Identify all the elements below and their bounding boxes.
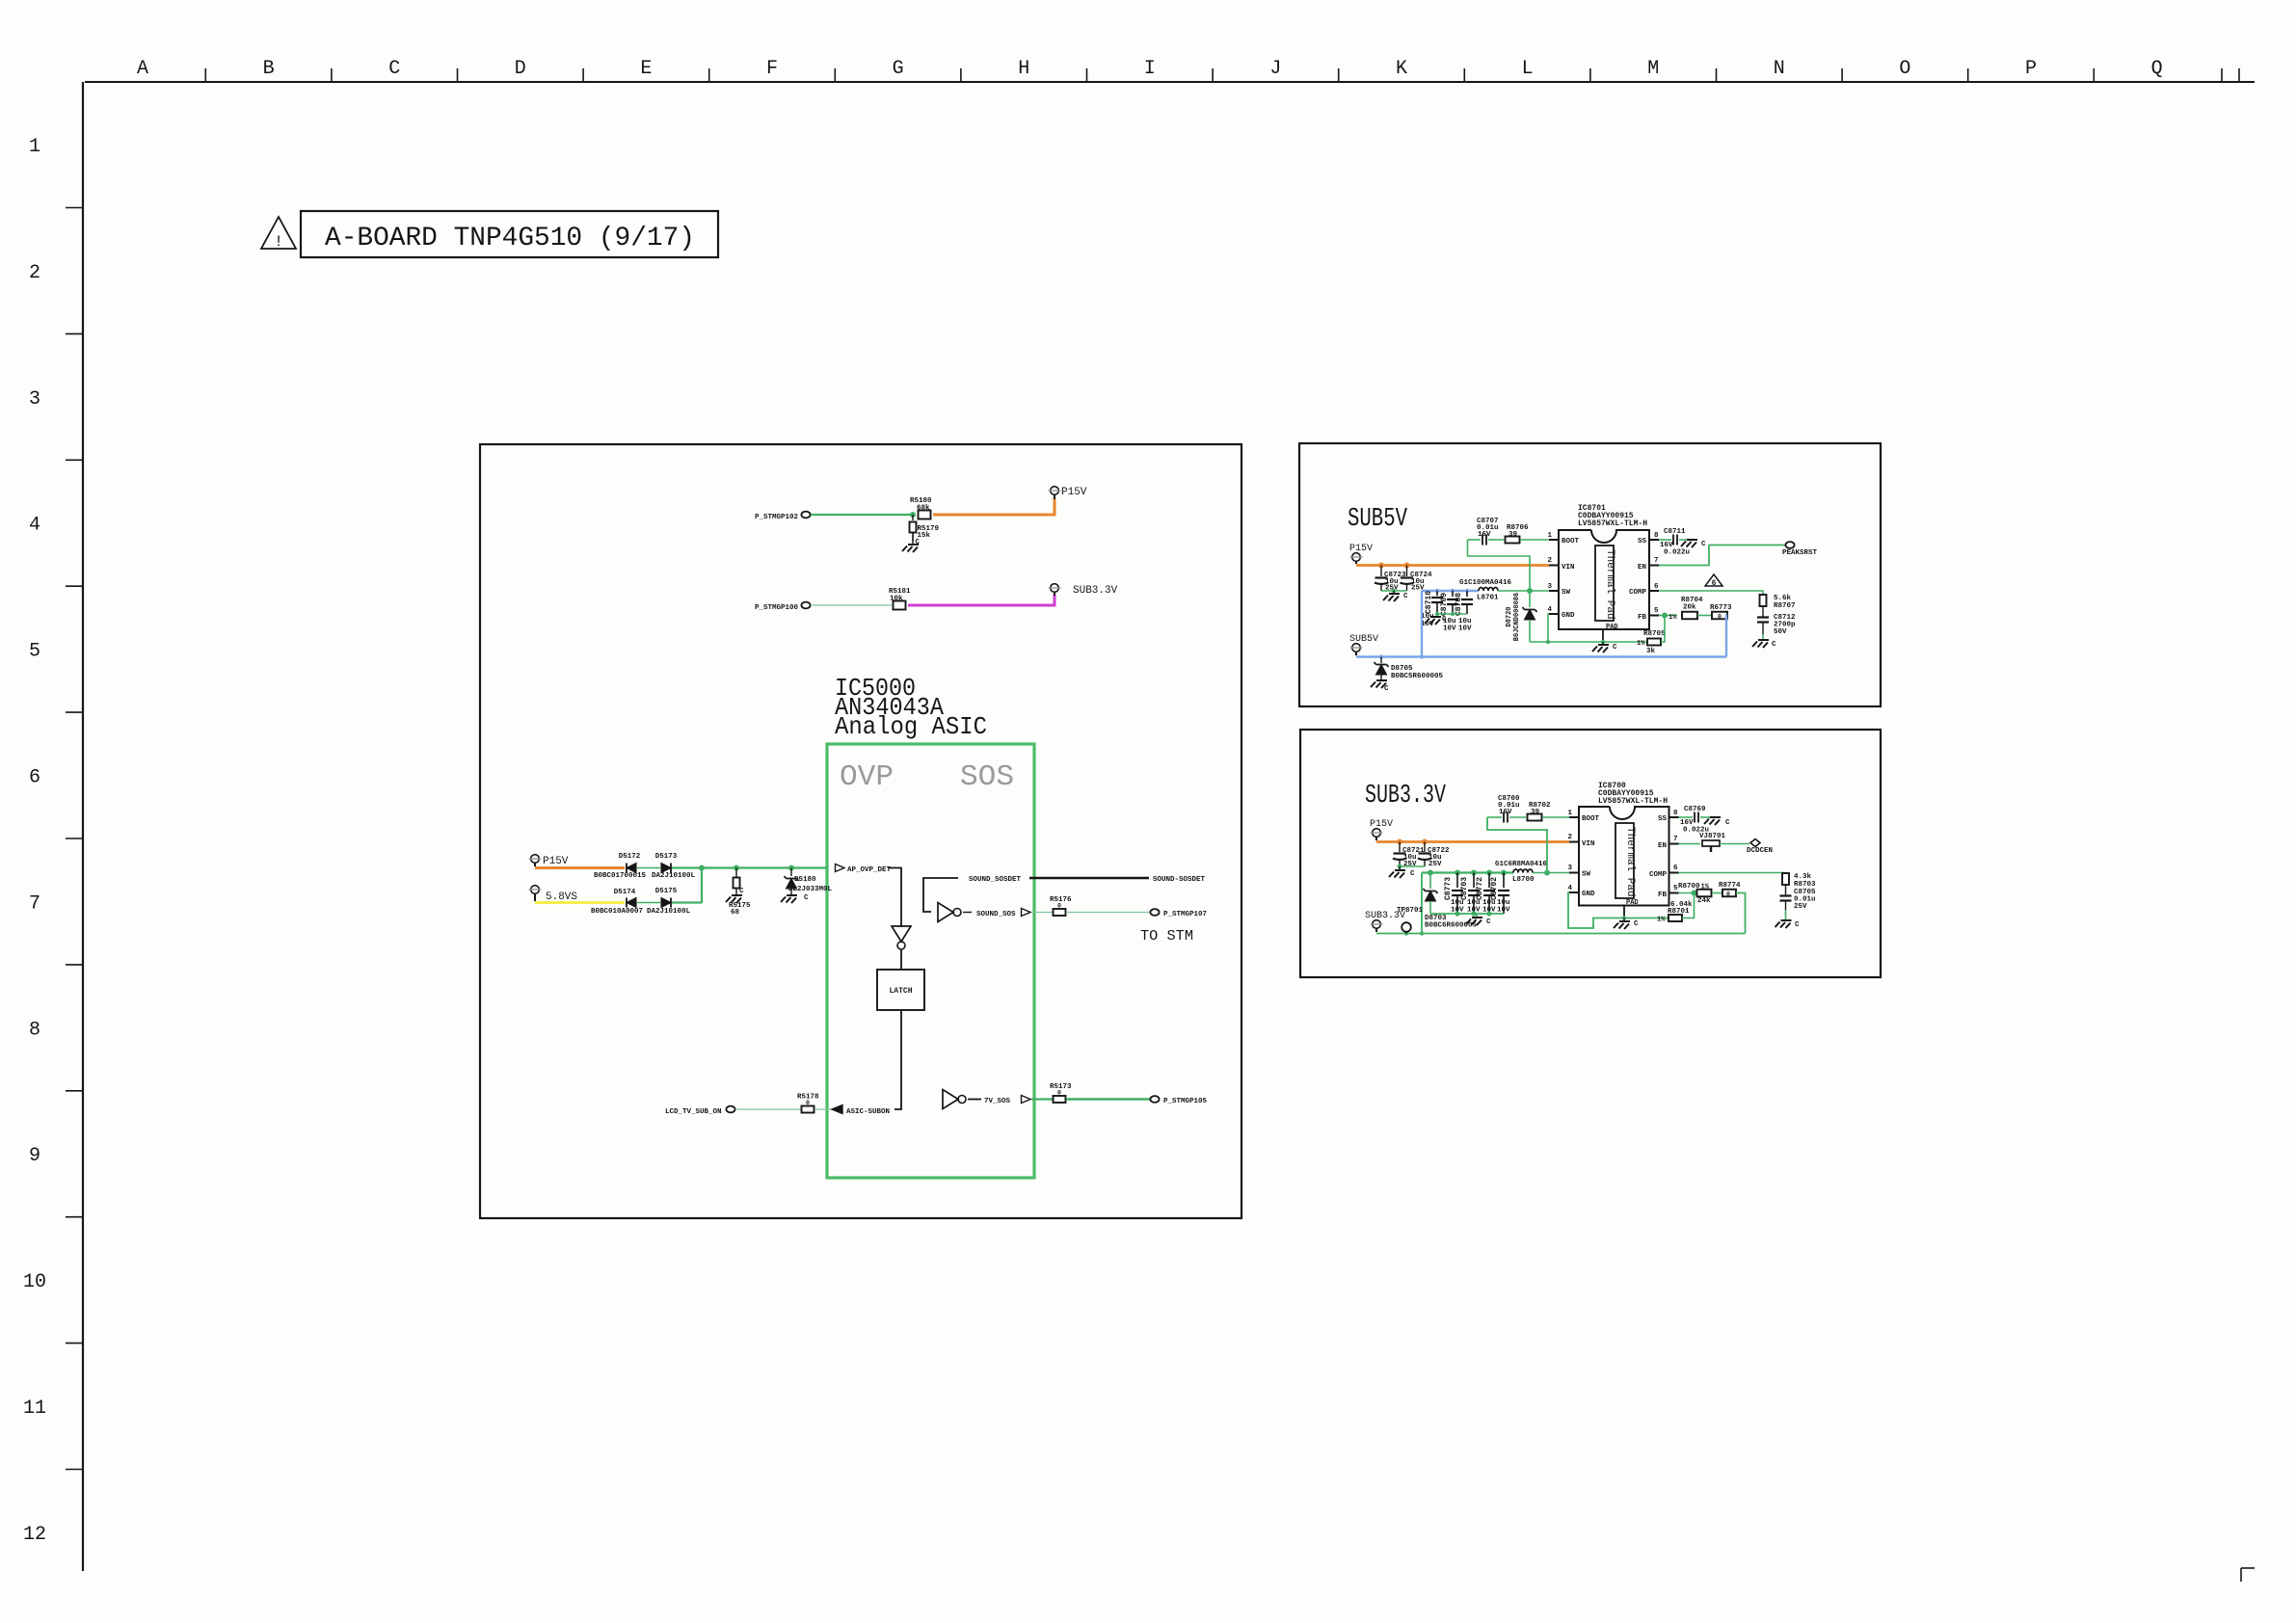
- terminal 5.8VS: [529, 886, 578, 903]
- svg-text:25V: 25V: [1428, 861, 1442, 868]
- terminal SUB3.3V top: [1049, 584, 1118, 597]
- resistor R8701: [1657, 901, 1693, 924]
- ground C8721 C8722: [1389, 866, 1415, 878]
- svg-text:6.04k: 6.04k: [1670, 901, 1693, 909]
- resistor R8705: [1637, 630, 1666, 655]
- node C8721 tap: [1397, 839, 1402, 845]
- wire SUB3.3V rail: [1376, 933, 1746, 935]
- svg-text:1%: 1%: [1701, 884, 1710, 891]
- svg-text:3k: 3k: [1646, 648, 1656, 655]
- ground D8705: [1371, 680, 1389, 693]
- warning triangle 6: [1705, 574, 1722, 588]
- pin 1 BOOT: [1547, 532, 1579, 545]
- svg-text:C8773: C8773: [1444, 877, 1453, 900]
- wire R5178 to block: [814, 1108, 831, 1110]
- capacitor C8723: [1375, 566, 1406, 593]
- wire R5173 to P_STMGP105: [1066, 1098, 1150, 1101]
- pin arrow AP_OVP_DET: [836, 865, 892, 875]
- svg-text:B0BC010A0007: B0BC010A0007: [591, 908, 643, 916]
- svg-text:D5174: D5174: [614, 889, 636, 896]
- svg-text:Analog ASIC: Analog ASIC: [835, 712, 987, 741]
- wire 5.8VS branch vertical: [701, 868, 703, 904]
- wire SOUND_SOSDET left segment: [923, 878, 958, 912]
- ground R5175: [726, 888, 744, 903]
- wire caps bottom rail sub33: [1430, 913, 1504, 915]
- svg-text:C: C: [804, 894, 809, 902]
- wire D5172 to D5173: [637, 867, 660, 869]
- wire COMP out sub33: [1679, 873, 1786, 875]
- wire SOUND_SOS to R5176: [1031, 912, 1053, 914]
- svg-text:P_STMGP105: P_STMGP105: [1163, 1098, 1208, 1105]
- inverter U sound_sos: [938, 903, 953, 922]
- svg-text:SUB5V: SUB5V: [1349, 634, 1378, 645]
- svg-text:24k: 24k: [1697, 897, 1711, 905]
- wire COMP out: [1659, 591, 1763, 595]
- svg-text:B0BC5R600005: B0BC5R600005: [1391, 673, 1444, 680]
- svg-text:20k: 20k: [1683, 604, 1696, 612]
- node C8773 tap: [1455, 870, 1460, 876]
- node PAD gnd sub33: [1622, 916, 1626, 919]
- pin 3 SW sub33: [1567, 865, 1590, 879]
- wire orange R5180 to P15V: [933, 498, 1055, 515]
- svg-text:3: 3: [29, 388, 40, 411]
- svg-text:R8701: R8701: [1668, 908, 1690, 916]
- svg-text:VIN: VIN: [1582, 840, 1595, 848]
- ground C8712: [1752, 634, 1776, 649]
- wire BOOT feed sub33: [1487, 817, 1547, 873]
- node C8708 tap: [1465, 589, 1469, 593]
- svg-text:C: C: [1384, 685, 1389, 693]
- svg-text:5: 5: [1654, 607, 1659, 615]
- terminal SUB5V: [1349, 634, 1378, 655]
- svg-text:D5172: D5172: [619, 853, 641, 861]
- svg-text:Thermal Pad: Thermal Pad: [1624, 827, 1636, 897]
- SUB5V block box: [1299, 443, 1881, 706]
- wire magenta R5181 to SUB3.3V: [908, 595, 1055, 605]
- resistor R5179: [910, 515, 940, 542]
- svg-text:7: 7: [1673, 836, 1678, 843]
- svg-text:OVP: OVP: [840, 760, 894, 794]
- svg-text:8: 8: [29, 1019, 40, 1041]
- svg-text:C8710: C8710: [1425, 591, 1433, 614]
- node C8722 tap: [1422, 839, 1428, 845]
- svg-text:9: 9: [29, 1145, 40, 1167]
- svg-text:C: C: [1442, 616, 1447, 624]
- svg-text:SOUND-SOSDET: SOUND-SOSDET: [1153, 876, 1206, 884]
- node diode join: [699, 865, 705, 871]
- svg-text:68: 68: [731, 909, 740, 917]
- resistor R8707: [1760, 595, 1796, 610]
- svg-text:R8703: R8703: [1794, 881, 1816, 889]
- svg-text:L: L: [1522, 58, 1534, 80]
- svg-text:39: 39: [1531, 809, 1540, 816]
- svg-text:C8711: C8711: [1664, 528, 1686, 536]
- svg-text:SW: SW: [1562, 589, 1571, 597]
- row numbers 1-12: [23, 136, 46, 1546]
- svg-text:D: D: [515, 58, 526, 80]
- svg-text:P15V: P15V: [543, 856, 569, 867]
- svg-text:GND: GND: [1582, 891, 1595, 898]
- IC8701 part labels: [1578, 504, 1647, 528]
- node riser tap sub33: [1420, 931, 1424, 935]
- terminal P_STMGP102: [755, 512, 811, 521]
- svg-text:P_STMGP102: P_STMGP102: [755, 514, 799, 521]
- svg-text:B0JCND000086: B0JCND000086: [1513, 593, 1521, 641]
- zener D5180: [785, 868, 833, 896]
- IC5000 label: [835, 674, 987, 741]
- svg-text:H: H: [1018, 58, 1029, 80]
- svg-text:O: O: [1899, 58, 1910, 80]
- svg-text:C: C: [1795, 921, 1800, 929]
- wire L8701 to SW pin: [1498, 590, 1549, 592]
- svg-text:5.6k: 5.6k: [1774, 595, 1792, 602]
- capacitor C8708: [1455, 591, 1473, 616]
- node C8724 tap: [1404, 563, 1410, 569]
- svg-text:10k: 10k: [890, 596, 903, 603]
- svg-text:Q: Q: [2151, 58, 2163, 80]
- svg-text:J: J: [1269, 58, 1281, 80]
- svg-text:L8700: L8700: [1512, 876, 1535, 884]
- resistor R8704: [1681, 597, 1703, 619]
- terminal P_STMGP107: [1150, 909, 1207, 918]
- svg-text:COMP: COMP: [1629, 589, 1647, 597]
- svg-text:GND: GND: [1562, 612, 1575, 620]
- node TP8701 tap: [1404, 931, 1408, 935]
- svg-text:SOUND_SOS: SOUND_SOS: [976, 911, 1016, 918]
- wire riser sub33: [1421, 873, 1423, 934]
- wire R8701 to FB junction: [1682, 893, 1695, 918]
- wire 7V_SOS to R5173: [1031, 1098, 1053, 1100]
- resistor R5180: [910, 497, 932, 519]
- svg-text:C: C: [1725, 819, 1730, 827]
- diode D5174: [591, 889, 643, 916]
- svg-text:1%: 1%: [1657, 917, 1666, 924]
- wire L8700 to SW sub33: [1533, 872, 1569, 874]
- resistor R8700: [1678, 883, 1712, 905]
- svg-text:7: 7: [1654, 557, 1659, 565]
- svg-text:11: 11: [23, 1397, 46, 1420]
- capacitor C8712: [1757, 606, 1796, 636]
- inverter U 7v_sos: [943, 1090, 958, 1109]
- svg-text:P: P: [2025, 58, 2037, 80]
- svg-text:2: 2: [29, 262, 40, 284]
- terminal SUB3.3V: [1365, 911, 1405, 932]
- pin PAD sub33: [1624, 899, 1639, 918]
- wire orange VIN rail: [1356, 564, 1549, 567]
- svg-text:LV5857WXL-TLM-H: LV5857WXL-TLM-H: [1578, 519, 1647, 528]
- thermal pad U8700: [1615, 823, 1636, 898]
- svg-text:VJ8701: VJ8701: [1699, 833, 1726, 840]
- svg-text:3: 3: [1547, 583, 1552, 591]
- svg-text:G: G: [893, 58, 904, 80]
- wire thin green P_STMGP100 to R5181: [811, 604, 892, 606]
- capacitor C8705: [1780, 885, 1817, 911]
- svg-text:1: 1: [29, 136, 40, 158]
- svg-text:R6773: R6773: [1710, 604, 1732, 612]
- wire BOOT feed: [1468, 540, 1531, 591]
- capacitor C8769: [1679, 806, 1713, 835]
- IC U8700 body: [1579, 807, 1669, 906]
- svg-text:12: 12: [23, 1524, 46, 1546]
- svg-text:SUB3.3V: SUB3.3V: [1365, 782, 1447, 811]
- svg-text:25V: 25V: [1794, 903, 1807, 911]
- bottom right corner mark: [2241, 1568, 2255, 1582]
- capacitor C8724: [1401, 566, 1433, 593]
- svg-text:4: 4: [1567, 885, 1572, 892]
- svg-text:ASIC-SUBON: ASIC-SUBON: [846, 1108, 890, 1116]
- pin 5 FB: [1638, 607, 1659, 622]
- node C8723 tap: [1378, 563, 1384, 569]
- svg-text:0: 0: [806, 1100, 810, 1106]
- capacitor C8709: [1440, 591, 1458, 616]
- wire caps bottom rail sub5v: [1437, 613, 1467, 615]
- svg-text:DCDCEN: DCDCEN: [1747, 847, 1773, 855]
- svg-text:D5175: D5175: [655, 888, 678, 895]
- ground PAD sub33: [1614, 918, 1639, 930]
- svg-text:C: C: [916, 539, 921, 546]
- pin 4 GND: [1547, 606, 1575, 620]
- svg-text:D8720: D8720: [1506, 606, 1513, 626]
- pin 6 COMP sub33: [1649, 865, 1679, 879]
- ground C8705: [1775, 910, 1801, 929]
- terminal P15V sub5v: [1349, 544, 1373, 564]
- svg-text:DA2J10100L: DA2J10100L: [652, 872, 696, 880]
- svg-text:TP8701: TP8701: [1397, 907, 1424, 915]
- svg-text:G1C100MA0416: G1C100MA0416: [1459, 579, 1512, 587]
- svg-text:P15V: P15V: [1061, 487, 1087, 498]
- node PAD gnd: [1601, 640, 1605, 644]
- diode D5175: [647, 888, 691, 916]
- svg-text:D8705: D8705: [1391, 665, 1413, 673]
- capacitor C8772: [1476, 873, 1495, 915]
- node D5180 tap: [788, 865, 794, 871]
- wire D5175 to branch: [672, 901, 702, 903]
- svg-text:SW: SW: [1582, 871, 1591, 879]
- wire blue 5V cap rail: [1422, 590, 1479, 592]
- svg-text:C8708: C8708: [1455, 593, 1463, 616]
- column letters A-Q: [137, 58, 2163, 80]
- wire yellow 5.8VS to D5174: [535, 901, 625, 904]
- svg-text:1: 1: [1547, 532, 1552, 540]
- svg-text:COMP: COMP: [1649, 871, 1668, 879]
- svg-text:D5173: D5173: [655, 853, 678, 861]
- wire caps join sub33: [1400, 865, 1425, 867]
- svg-text:C8772: C8772: [1476, 877, 1484, 900]
- svg-text:B: B: [263, 58, 275, 80]
- svg-text:EN: EN: [1638, 564, 1646, 572]
- node C8703 tap: [1471, 870, 1477, 876]
- wire FB junction: [1659, 615, 1677, 617]
- terminal LCD_TV_SUB_ON: [665, 1106, 735, 1116]
- svg-text:10: 10: [23, 1271, 46, 1293]
- svg-text:B0BC6R600005: B0BC6R600005: [1425, 922, 1478, 930]
- svg-text:R8774: R8774: [1719, 882, 1741, 890]
- capacitor C8773: [1444, 873, 1463, 915]
- svg-text:L8701: L8701: [1477, 595, 1499, 602]
- diode D5172: [594, 853, 647, 880]
- svg-text:1%: 1%: [1637, 640, 1645, 648]
- svg-text:PEAKSRST: PEAKSRST: [1782, 549, 1818, 557]
- pin 7 EN: [1638, 557, 1659, 572]
- svg-text:6: 6: [1712, 579, 1717, 588]
- terminal P15V top: [1049, 487, 1087, 499]
- cap values sub33: [1451, 899, 1510, 915]
- svg-text:0: 0: [1726, 891, 1730, 898]
- cap values sub5v: [1421, 613, 1472, 633]
- svg-text:0: 0: [1057, 903, 1061, 910]
- svg-text:SUB3.3V: SUB3.3V: [1073, 585, 1118, 597]
- svg-text:C8769: C8769: [1684, 806, 1706, 813]
- wire orange VIN rail sub33: [1376, 840, 1569, 843]
- pin 2 VIN sub33: [1567, 834, 1594, 848]
- svg-text:A-BOARD TNP4G510 (9/17): A-BOARD TNP4G510 (9/17): [325, 224, 695, 253]
- arrow ASIC-SUBON in: [832, 1105, 890, 1117]
- IC U8701 body: [1559, 530, 1649, 629]
- resistor R5175: [729, 868, 751, 918]
- capacitor C8700: [1487, 795, 1526, 823]
- svg-text:0.022u: 0.022u: [1664, 549, 1690, 557]
- wire green P_STMGP102 to R5180: [811, 514, 913, 516]
- wire green 3.3V cap rail: [1422, 871, 1513, 873]
- resistor R5178: [797, 1094, 819, 1113]
- arrow 7V_SOS out: [1022, 1096, 1031, 1104]
- ground D5180: [781, 894, 809, 903]
- testpoint TP8701: [1397, 907, 1424, 934]
- svg-text:6: 6: [1654, 583, 1659, 591]
- terminal P_STMGP105: [1150, 1096, 1207, 1105]
- capacitor C8702: [1490, 873, 1509, 915]
- net label SOUND_SOS: [963, 911, 1016, 918]
- svg-text:FB: FB: [1638, 614, 1647, 622]
- resistor R8774: [1719, 882, 1741, 898]
- svg-text:2: 2: [1567, 834, 1572, 841]
- capacitor C8710: [1425, 591, 1443, 614]
- svg-text:K: K: [1396, 58, 1407, 80]
- warning triangle: [261, 217, 296, 251]
- pin 2 VIN: [1547, 557, 1574, 572]
- wire pin4 GND down: [1548, 614, 1549, 642]
- svg-text:SOUND_SOSDET: SOUND_SOSDET: [969, 876, 1022, 884]
- svg-text:1%: 1%: [1669, 614, 1677, 622]
- svg-text:PAD: PAD: [1606, 624, 1618, 631]
- wire SOUND_SOSDET to right: [1029, 877, 1149, 879]
- svg-text:!: !: [274, 233, 283, 251]
- svg-text:C: C: [388, 58, 400, 80]
- ground C8711: [1681, 540, 1706, 548]
- capacitor C8721: [1393, 842, 1425, 869]
- svg-text:8: 8: [1673, 810, 1678, 817]
- pin 3 SW: [1547, 583, 1570, 597]
- node D8705 tap: [1379, 654, 1383, 658]
- terminal P15V sub33: [1370, 819, 1393, 840]
- ground caps sub33: [1466, 914, 1491, 926]
- svg-text:P15V: P15V: [1370, 819, 1393, 830]
- svg-text:6: 6: [1673, 865, 1678, 872]
- wire blue FB return: [1726, 616, 1727, 657]
- node C8709 tap: [1451, 589, 1455, 593]
- wire EN to PEAKSRST: [1659, 545, 1785, 566]
- svg-text:C: C: [739, 888, 744, 895]
- svg-text:SUB5V: SUB5V: [1348, 505, 1408, 534]
- svg-text:16V: 16V: [1499, 809, 1512, 816]
- node caps riser tap: [1420, 654, 1424, 658]
- diode D5173: [652, 853, 696, 880]
- svg-text:Thermal Pad: Thermal Pad: [1604, 549, 1615, 620]
- capacitor C8722: [1418, 842, 1450, 869]
- svg-text:SOS: SOS: [960, 760, 1014, 794]
- svg-text:BOOT: BOOT: [1562, 538, 1580, 545]
- wire FB return sub33: [1736, 893, 1746, 934]
- SUB3.3V block box: [1300, 730, 1881, 977]
- wire LCD_TV_SUB_ON to R5178: [735, 1108, 801, 1110]
- wire orange P15V to D5172: [535, 866, 625, 869]
- svg-text:7: 7: [29, 892, 40, 915]
- svg-text:3: 3: [1567, 865, 1572, 872]
- pin 6 COMP: [1629, 583, 1659, 597]
- node D8703 tap: [1428, 870, 1433, 876]
- svg-text:10V: 10V: [1458, 625, 1472, 633]
- ground caps sub5v: [1425, 616, 1447, 625]
- svg-text:C: C: [1772, 641, 1776, 649]
- svg-text:P_STMGP100: P_STMGP100: [755, 604, 799, 612]
- node SW junction sub33: [1544, 870, 1550, 876]
- svg-text:SS: SS: [1638, 538, 1647, 545]
- node R5175 tap: [734, 865, 739, 871]
- svg-text:TO STM: TO STM: [1140, 928, 1193, 945]
- wire FB junction sub33: [1679, 892, 1707, 894]
- wire blue SUB5V rail: [1356, 655, 1726, 657]
- terminal PEAKSRST: [1782, 542, 1818, 557]
- svg-text:EN: EN: [1658, 842, 1667, 850]
- svg-text:7V_SOS: 7V_SOS: [984, 1098, 1011, 1105]
- svg-text:SS: SS: [1658, 815, 1668, 823]
- net label 7V_SOS: [968, 1098, 1011, 1105]
- svg-text:0: 0: [1057, 1090, 1061, 1097]
- ground PAD sub5v: [1592, 642, 1617, 652]
- wire blue caps riser: [1421, 591, 1423, 657]
- svg-text:0: 0: [1718, 614, 1722, 621]
- svg-text:50V: 50V: [1774, 628, 1787, 636]
- wire gnd pad rail: [1530, 641, 1647, 643]
- pin 8 SS sub33: [1658, 810, 1679, 823]
- IC8700 part labels: [1598, 782, 1668, 806]
- svg-text:LV5857WXL-TLM-H: LV5857WXL-TLM-H: [1598, 797, 1668, 806]
- capacitor C8707: [1468, 518, 1505, 545]
- svg-text:C: C: [1486, 918, 1491, 926]
- capacitor C8703: [1460, 873, 1480, 915]
- svg-text:DA2J10100L: DA2J10100L: [647, 908, 691, 916]
- svg-text:A: A: [137, 58, 148, 80]
- pin 4 GND sub33: [1567, 885, 1595, 898]
- resistor R8706: [1506, 524, 1550, 544]
- svg-text:BOOT: BOOT: [1582, 815, 1600, 823]
- svg-text:C8702: C8702: [1490, 877, 1499, 900]
- row tick marks: [66, 208, 83, 1470]
- svg-text:C: C: [1410, 870, 1415, 878]
- resistor R5173: [1050, 1083, 1072, 1103]
- inductor L8701: [1459, 579, 1512, 602]
- inductor L8700: [1495, 861, 1548, 884]
- pin 7 EN sub33: [1658, 836, 1679, 850]
- ground C8769: [1704, 817, 1730, 827]
- latch box: [877, 970, 924, 1010]
- pin 5 FB sub33: [1658, 885, 1679, 899]
- wire D5173 to OVP input: [672, 866, 827, 868]
- terminal P15V left: [529, 855, 569, 867]
- zener D8703: [1424, 873, 1478, 930]
- wire R8705 to FB: [1661, 616, 1665, 643]
- svg-text:VIN: VIN: [1562, 564, 1575, 572]
